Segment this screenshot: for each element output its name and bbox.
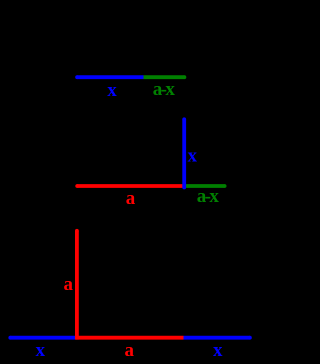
figure 2: segment a-x (green) [185,184,227,188]
svg-text:x: x [107,80,117,101]
svg-text:a-x: a-x [197,186,220,207]
svg-text:a-x: a-x [153,79,176,100]
figure 1: segment a-x (green) [144,75,187,79]
figure 3: middle segment a (red) [76,336,183,340]
svg-text:a: a [124,340,134,361]
figure 2: vertical segment x (blue) [182,117,186,189]
figure 2: segment a (red) [75,184,183,188]
svg-text:x: x [213,340,223,361]
figure 1: label a-x [153,79,176,100]
svg-text:a: a [126,188,136,209]
figure 2: label a-x [197,186,220,207]
figure 3: label x (left) [35,340,45,361]
figure 3: vertical segment a (red) [75,229,79,340]
figure 1: label x [107,80,117,101]
svg-text:x: x [187,145,197,166]
figure 1: segment x (blue) [75,75,143,79]
figure 2: label a [126,188,136,209]
svg-text:a: a [63,274,73,295]
figure 2: label x [187,145,197,166]
figure 3: right segment x (blue) [184,336,252,340]
figure 3: label x (right) [213,340,223,361]
svg-text:x: x [35,340,45,361]
figure 3: label a (vertical) [63,274,73,295]
figure 3: left segment x (blue) [8,336,77,340]
figure 3: label a (middle) [124,340,134,361]
